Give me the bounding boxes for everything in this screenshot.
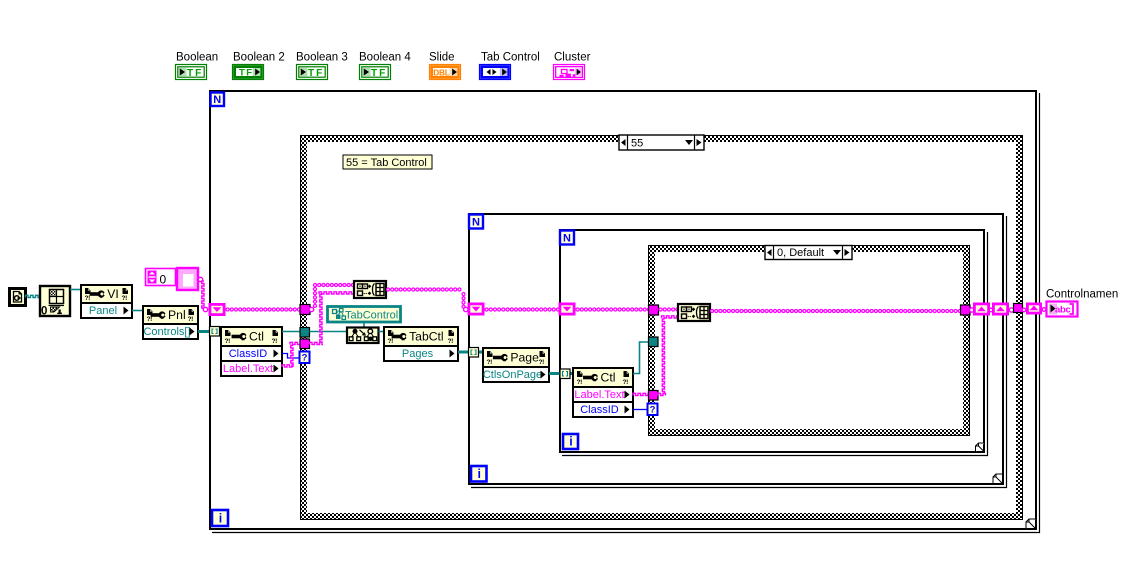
- svg-text:?!: ?!: [539, 359, 545, 366]
- svg-text:DBL: DBL: [433, 68, 449, 77]
- svg-text:Boolean 3: Boolean 3: [296, 52, 348, 64]
- For loop 3 right shift register: [974, 304, 988, 314]
- wire: Label.Text to inner case tunnel (pink wavy): [633, 393, 649, 395]
- For loop 3 N count terminal: [560, 231, 574, 245]
- auto-index tunnel on For loop 3 (CtlsOnPage): [560, 369, 570, 379]
- svg-text:?: ?: [302, 353, 308, 364]
- inner case selector label 0, Default: [765, 246, 852, 260]
- wire: string inside inner case up to Build Array: [658, 393, 666, 395]
- svg-text:Pnl: Pnl: [168, 308, 186, 322]
- For loop 2 N count terminal: [469, 215, 483, 229]
- svg-text:?!: ?!: [388, 338, 394, 345]
- wire: Label.Text to case tunnel (pink wavy): [282, 365, 293, 367]
- svg-text:Pages: Pages: [402, 348, 434, 360]
- For loop 3 left shift register: [560, 304, 574, 314]
- Cluster terminal (magenta control): [554, 65, 585, 80]
- svg-text:i: i: [478, 467, 481, 481]
- svg-text:?!: ?!: [85, 295, 91, 302]
- wire: chain from For3 shift register to inner case tunnel: [576, 307, 650, 311]
- wire: ClassID to case selector (blue): [282, 354, 301, 359]
- svg-text:TF: TF: [239, 68, 254, 79]
- outer case selector label 55: [619, 135, 704, 150]
- svg-text:Label.Text: Label.Text: [223, 363, 273, 375]
- Tab Control terminal (blue control): [480, 65, 511, 80]
- wire: array constant to shift register (pink zigzag): [198, 277, 202, 281]
- outer For loop frame: [210, 91, 1036, 529]
- property node Ctl inner (Label.Text, ClassID): [573, 368, 633, 387]
- tunnel into outer case (Label.Text string): [300, 339, 310, 349]
- tunnel out of outer case (string array): [1014, 304, 1023, 313]
- TabControl class specifier constant: [328, 307, 401, 323]
- wire: chain inside case up to Build Array: [309, 307, 313, 311]
- svg-text:?!: ?!: [577, 379, 583, 386]
- svg-text:?!: ?!: [272, 338, 278, 345]
- outer For loop left shift register: [210, 304, 224, 314]
- wire: Open reference to VI property node: [70, 289, 81, 291]
- For loop 3 i iteration terminal: [563, 434, 578, 449]
- Boolean terminal (green TF indicator): [176, 65, 207, 80]
- svg-text:?!: ?!: [623, 379, 629, 386]
- svg-text:Controlnamen: Controlnamen: [1046, 289, 1118, 301]
- svg-text:Boolean 4: Boolean 4: [359, 52, 411, 64]
- wire: built array to For loop 2 shift register (chain): [386, 287, 464, 291]
- auto-index tunnel on For loop 2 (Pages): [469, 348, 479, 358]
- property node Page (CtlsOnPage): [483, 348, 549, 367]
- svg-text:55: 55: [631, 138, 643, 150]
- wire: CtlsOnPage array to For loop 3 tunnel: [549, 372, 573, 375]
- svg-text:0: 0: [41, 306, 47, 318]
- wire: cast refnum to TabCtl property node: [379, 331, 385, 333]
- outer For loop resize corner: [1026, 519, 1036, 529]
- teal tunnel on inner case border: [649, 337, 659, 347]
- svg-text:i: i: [569, 435, 572, 449]
- svg-text:i: i: [219, 512, 222, 526]
- svg-text:Boolean 2: Boolean 2: [233, 52, 285, 64]
- tunnel into inner case (string array chain): [649, 305, 659, 315]
- wire: Panel to Pnl property node: [132, 310, 143, 312]
- For loop 2 frame: [469, 214, 1003, 484]
- svg-text:TF: TF: [308, 68, 324, 79]
- wire: refnum inside case to To More Specific node: [310, 331, 348, 333]
- svg-text:?!: ?!: [487, 359, 493, 366]
- Open VI Object Reference node: [40, 286, 70, 316]
- tunnel out of inner case (string array): [961, 305, 971, 315]
- tunnel into outer case (string array): [300, 305, 310, 315]
- svg-text:?!: ?!: [122, 295, 128, 302]
- outer For loop N count terminal: [211, 93, 225, 107]
- For loop 2 i iteration terminal: [471, 466, 487, 482]
- wire: built array across inner case to right tunnel (chain): [710, 309, 961, 313]
- This VI reference constant: [10, 289, 26, 306]
- To More Specific Class node: [347, 328, 379, 344]
- svg-text:Slide: Slide: [429, 52, 455, 64]
- svg-text:?!: ?!: [147, 316, 153, 323]
- wire: chain from For2 shift register to For3 shift register: [485, 307, 560, 311]
- For loop 2 resize corner: [993, 474, 1002, 483]
- svg-text:55 = Tab Control: 55 = Tab Control: [346, 157, 427, 169]
- svg-text:Page: Page: [510, 351, 539, 365]
- property node Ctl (ClassID, Label.Text): [221, 327, 282, 346]
- svg-text:Cluster: Cluster: [554, 52, 591, 64]
- For loop 2 right shift register: [993, 304, 1007, 314]
- svg-text:Panel: Panel: [89, 305, 117, 317]
- svg-text:0: 0: [160, 273, 167, 287]
- empty string array constant (element box): [177, 268, 198, 290]
- For loop 3 frame: [560, 230, 984, 452]
- wire: string inside case up to Build Array: [310, 342, 324, 344]
- wire: class specifier into To More Specific Class: [363, 322, 365, 328]
- svg-text:TabControl: TabControl: [345, 310, 398, 322]
- wire: Controls[] array to For loop tunnel: [198, 330, 221, 333]
- svg-text:ClassID: ClassID: [229, 348, 268, 360]
- svg-text:CtlsOnPage: CtlsOnPage: [483, 369, 542, 381]
- Boolean 4 terminal (green TF indicator): [360, 65, 391, 80]
- svg-text:ClassID: ClassID: [580, 404, 619, 416]
- For loop 2 left shift register: [469, 304, 483, 314]
- property node TabCtl (Pages): [384, 327, 458, 346]
- Controlnamen string array indicator terminal: [1047, 302, 1078, 317]
- wire: string array from shift register to case tunnel (chain): [226, 307, 301, 311]
- outer For loop i iteration terminal: [212, 510, 228, 526]
- property node VI (Panel): [81, 285, 132, 303]
- wire: refnum out of Ctl to inner case teal tunnel: [633, 342, 649, 374]
- svg-text:Boolean: Boolean: [176, 52, 218, 64]
- free label 55 = Tab Control: [343, 155, 432, 169]
- wire: refnum Ctl to case teal tunnel: [282, 331, 300, 333]
- Slide terminal (orange DBL control): [430, 65, 461, 80]
- auto-index tunnel on outer For loop (Controls[]): [210, 327, 220, 337]
- svg-text:TF: TF: [187, 68, 203, 79]
- svg-text:TF: TF: [371, 68, 387, 79]
- svg-text:N: N: [472, 217, 480, 229]
- wire: ClassID to inner case selector (blue): [633, 409, 648, 411]
- inner case selector terminal ?: [648, 404, 658, 416]
- For loop 3 resize corner: [976, 443, 985, 452]
- Boolean 3 terminal (green TF indicator): [297, 65, 328, 80]
- tunnel into inner case (Label.Text string): [649, 391, 659, 401]
- svg-text:?: ?: [650, 405, 656, 416]
- wire: Pages array to For loop 2 tunnel: [458, 351, 483, 354]
- Boolean 2 terminal (green TF control): [233, 65, 264, 80]
- Build Array function (outer case): [354, 281, 386, 298]
- svg-text:abc: abc: [1055, 305, 1070, 316]
- svg-text:Ctl: Ctl: [601, 371, 616, 385]
- svg-text:Ctl: Ctl: [249, 330, 264, 344]
- wire: This VI to Open VI Object Reference (teal squiggle): [26, 295, 40, 297]
- svg-text:TabCtl: TabCtl: [409, 330, 444, 344]
- svg-text:N: N: [563, 233, 571, 245]
- svg-text:?!: ?!: [188, 316, 194, 323]
- svg-text:Label.Text: Label.Text: [574, 389, 624, 401]
- outer For loop right shift register: [1027, 304, 1040, 313]
- teal tunnel on outer case border: [300, 328, 310, 338]
- svg-text:N: N: [213, 94, 221, 106]
- svg-text:?!: ?!: [448, 338, 454, 345]
- outer case structure border: [301, 136, 1023, 520]
- Build Array function (inner case): [678, 304, 710, 321]
- inner case structure border: [649, 246, 970, 436]
- svg-text:Controls[]: Controls[]: [143, 326, 190, 338]
- svg-text:VI: VI: [107, 287, 119, 301]
- case selector terminal ?: [300, 352, 310, 364]
- svg-text:Tab Control: Tab Control: [481, 52, 540, 64]
- svg-text:?!: ?!: [225, 338, 231, 345]
- empty string array constant (index box): [146, 269, 176, 286]
- wire: chain inside inner case to Build Array: [659, 307, 679, 311]
- svg-text:0, Default: 0, Default: [777, 247, 824, 259]
- property node Pnl (Controls[]): [143, 306, 198, 324]
